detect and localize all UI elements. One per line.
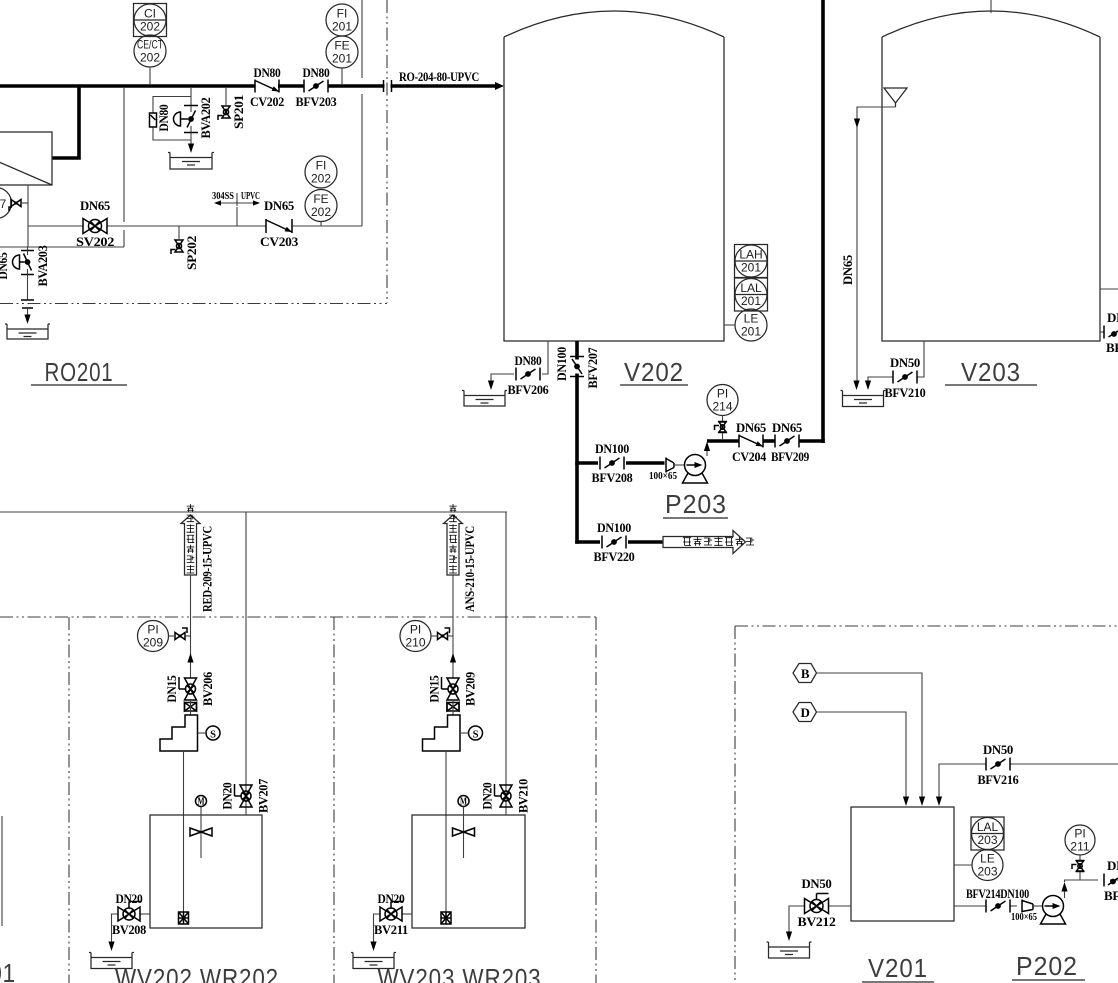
- flow indicator FI201: [326, 4, 358, 36]
- svg-text:BV209: BV209: [463, 671, 478, 706]
- dosing tank WV202 WR202: [150, 815, 262, 928]
- root valve below PI214: [722, 416, 724, 422]
- instrument tap wire FE201 to pipe: [341, 68, 343, 84]
- tank V201: [851, 807, 954, 921]
- svg-text:CV204: CV204: [732, 449, 767, 464]
- svg-text:WV203 WR203: WV203 WR203: [378, 963, 542, 983]
- svg-text:100×65: 100×65: [649, 471, 677, 482]
- svg-text:PI: PI: [410, 623, 421, 637]
- svg-text:100×65: 100×65: [1011, 912, 1037, 923]
- svg-text:BFV214DN100: BFV214DN100: [966, 886, 1029, 901]
- svg-text:CI: CI: [144, 7, 156, 21]
- svg-text:BVA202: BVA202: [198, 98, 213, 139]
- svg-text:209: 209: [143, 636, 163, 650]
- pulsation damper: [447, 703, 459, 712]
- svg-text:S: S: [473, 730, 479, 741]
- ball valve BV212: [805, 894, 829, 914]
- arrow overflow into pit: [853, 381, 859, 391]
- svg-text:FE: FE: [334, 39, 349, 53]
- thick pipe suction branch to P203: [575, 461, 598, 465]
- thick pipe discharge riser to top: [821, 0, 825, 443]
- metering pump body: [160, 715, 198, 751]
- svg-text:FI: FI: [337, 7, 348, 21]
- arrow drain into pit: [865, 381, 871, 391]
- chinese text to dosing point rotated: [449, 504, 457, 512]
- pressure instrument PI2.. at left edge: [0, 188, 12, 219]
- wire suction line into tank: [445, 751, 447, 912]
- pump P202: [1041, 896, 1066, 925]
- pressure indicator PI211: [1065, 825, 1095, 855]
- instrument root valve at RO outlet: [9, 200, 28, 212]
- check valve CV202: [255, 80, 279, 93]
- butterfly valve BFV206: [516, 368, 540, 381]
- svg-text:CE/CT: CE/CT: [137, 38, 163, 52]
- instrument tap wire FE202: [320, 222, 322, 227]
- svg-text:BFV210: BFV210: [885, 385, 926, 400]
- svg-text:201: 201: [332, 52, 352, 66]
- wire V203 overflow line DN65: [857, 107, 896, 385]
- sample valve SP201: [218, 106, 230, 120]
- flow arrow up on dosing line: [187, 653, 193, 663]
- svg-text:V203: V203: [961, 357, 1021, 387]
- drain pit below V203: [841, 391, 886, 407]
- svg-text:D: D: [800, 705, 809, 720]
- svg-text:CV203: CV203: [260, 234, 299, 249]
- svg-text:SP201: SP201: [231, 95, 246, 129]
- chinese text connect to owner main water supply equipment: [683, 538, 691, 546]
- wire dosing water header y=512: [0, 511, 507, 513]
- reducer 100x65 at P202 suction: [1022, 900, 1033, 913]
- pressure indicator PI210: [400, 621, 431, 652]
- reducer 100x65 at P203 suction: [666, 458, 674, 473]
- svg-text:BFV203: BFV203: [296, 94, 338, 109]
- wire reducer to pump P202: [1033, 905, 1043, 907]
- svg-text:LE: LE: [980, 852, 995, 866]
- wire V201 drain via BV212: [829, 905, 852, 907]
- wire damper to metering pump: [190, 700, 192, 715]
- ball valve BV208: [118, 902, 141, 922]
- wire BVA202 to drain: [190, 133, 192, 145]
- wire concentrate header y=226: [28, 225, 83, 227]
- svg-text:BFV217: BFV217: [1104, 888, 1118, 903]
- material break marker 304SS/UPVC: [236, 193, 238, 206]
- root valve below PI211: [1079, 855, 1081, 861]
- wire damper to metering pump: [452, 700, 454, 715]
- level alarm low LAL203: [971, 817, 1004, 850]
- svg-text:BV207: BV207: [256, 778, 271, 813]
- svg-text:DN80: DN80: [156, 105, 171, 132]
- butterfly valve BFV214: [986, 900, 1010, 913]
- wire V203 level instruments stub: [1100, 288, 1118, 290]
- wire dosing discharge line: [190, 575, 192, 678]
- svg-text:M: M: [198, 797, 205, 808]
- wire dilution water drop with valve: [505, 512, 507, 815]
- valve assembly BVA203 on reject header: [13, 247, 35, 275]
- butterfly valve BFV209: [775, 435, 799, 448]
- drain pit below BVA203: [5, 324, 50, 339]
- svg-text:201: 201: [0, 958, 16, 983]
- boundary dosing skids horizontal: [0, 616, 596, 618]
- tank V202 shell: [504, 37, 724, 341]
- svg-text:ANS-210-15-UPVC: ANS-210-15-UPVC: [462, 526, 477, 612]
- svg-text:WV202 WR202: WV202 WR202: [115, 963, 279, 983]
- butterfly valve BFV216: [986, 758, 1010, 771]
- svg-text:DN20: DN20: [220, 783, 235, 810]
- svg-text:FE: FE: [313, 192, 328, 206]
- ball valve BV210 vertical: [495, 784, 513, 807]
- valve at right edge of P202 discharge: [1103, 874, 1105, 887]
- svg-text:BFV211: BFV211: [1106, 340, 1118, 355]
- drain pit below BVA202: [168, 153, 214, 170]
- svg-text:DN100: DN100: [595, 441, 629, 456]
- pressure indicator PI214: [707, 385, 738, 416]
- svg-text:RED-209-15-UPVC: RED-209-15-UPVC: [200, 526, 215, 612]
- svg-text:DN20: DN20: [480, 783, 495, 810]
- svg-text:DN80: DN80: [515, 353, 542, 368]
- svg-text:DN65: DN65: [736, 420, 767, 435]
- wire P202 discharge: [1064, 885, 1066, 898]
- svg-text:BV206: BV206: [200, 671, 215, 706]
- wire reject branch x=124 from main pipe: [123, 88, 125, 222]
- svg-text:DN80: DN80: [254, 65, 281, 80]
- ball valve BV207 vertical: [235, 784, 253, 807]
- battery limit boundary RO skid: [386, 0, 388, 303]
- check valve CV203: [266, 219, 292, 233]
- svg-text:FI: FI: [316, 159, 327, 173]
- sample point SP202 tap wire: [178, 226, 180, 239]
- drain pit below V202: [462, 391, 507, 407]
- wire P203 discharge with arrow: [706, 443, 708, 456]
- svg-text:DN100: DN100: [597, 520, 631, 535]
- svg-text:V202: V202: [624, 357, 684, 387]
- svg-text:DN50: DN50: [890, 355, 920, 370]
- analyzer indicator CI202 in square: [134, 4, 167, 37]
- level alarm low LAL201: [735, 278, 768, 311]
- thick pipe V202 outlet riser: [575, 341, 579, 360]
- boundary vertical x=596: [595, 617, 597, 983]
- wire dosing discharge line: [452, 575, 454, 678]
- svg-text:RO-204-80-UPVC: RO-204-80-UPVC: [399, 69, 479, 84]
- svg-text:BV208: BV208: [112, 922, 147, 937]
- svg-text:BFV206: BFV206: [508, 382, 550, 397]
- wire LE203 to tank: [954, 864, 972, 866]
- agitator shaft and impeller: [463, 807, 465, 859]
- sample point SP201 tap wire: [225, 88, 227, 105]
- svg-text:LAL: LAL: [977, 820, 999, 834]
- svg-text:201: 201: [741, 325, 761, 339]
- svg-text:DN15: DN15: [164, 675, 179, 703]
- svg-text:DN100: DN100: [554, 347, 569, 381]
- root valve of PI209: [175, 628, 187, 640]
- svg-text:S: S: [210, 730, 216, 741]
- svg-text:DN80: DN80: [303, 65, 330, 80]
- flow arrow on overflow line: [854, 119, 860, 129]
- wire dilution water drop with valve: [245, 512, 247, 815]
- foot strainer: [441, 912, 451, 924]
- wire reducer to pump P203: [674, 464, 685, 466]
- svg-text:BV210: BV210: [516, 779, 531, 813]
- wire BVA203 drain with boundary flange pair: [27, 275, 29, 301]
- svg-text:LAH: LAH: [739, 248, 762, 262]
- svg-text:SP202: SP202: [184, 236, 199, 270]
- svg-text:LAL: LAL: [740, 281, 762, 295]
- svg-text:201: 201: [332, 20, 352, 34]
- level element LE201: [735, 309, 767, 341]
- svg-text:PI: PI: [147, 623, 158, 637]
- wire LE201 to tank: [724, 324, 735, 326]
- svg-text:PI: PI: [717, 387, 728, 401]
- svg-text:P202: P202: [1016, 951, 1078, 981]
- foot strainer: [179, 912, 189, 924]
- flow element FE201: [326, 36, 358, 68]
- wire main product pipe RO-204 y=86: [0, 84, 255, 88]
- svg-text:DN65: DN65: [264, 198, 295, 213]
- svg-text:UPVC: UPVC: [241, 191, 260, 202]
- svg-text:203: 203: [977, 865, 997, 879]
- svg-text:B: B: [801, 666, 810, 681]
- flow arrow up on dosing line: [450, 653, 456, 663]
- chinese text to dosing point rotated: [187, 504, 195, 512]
- arrow into pit of BV212: [786, 932, 792, 942]
- svg-text:DN65: DN65: [1107, 858, 1118, 873]
- wire tank drain with valve BV208: [140, 913, 150, 915]
- metering pump body: [423, 715, 461, 751]
- flush valve assembly BVA202 tap from pipe: [190, 88, 192, 105]
- svg-text:RO201: RO201: [45, 357, 114, 387]
- check valve CV204: [739, 435, 763, 448]
- svg-text:DN20: DN20: [116, 891, 143, 906]
- svg-text:BFV20: BFV20: [0, 783, 3, 817]
- svg-text:202: 202: [311, 172, 331, 186]
- wire stub on V203 dome top: [990, 0, 992, 13]
- svg-text:DN65: DN65: [0, 252, 10, 280]
- svg-text:202: 202: [140, 51, 160, 65]
- svg-text:BFV208: BFV208: [592, 470, 634, 485]
- wire concentrate riser x=362: [361, 0, 363, 78]
- butterfly valve BFV208: [600, 457, 624, 470]
- wire V203 drain branch: [917, 341, 924, 377]
- tank V203 shell: [882, 37, 1100, 341]
- wire dilution water inlet via BFV216: [1010, 763, 1118, 765]
- svg-text:CV202: CV202: [250, 94, 284, 109]
- solenoid S circle: [469, 726, 483, 740]
- svg-text:DN50: DN50: [983, 742, 1013, 757]
- pulsation damper: [185, 703, 197, 712]
- agitator motor M: [458, 796, 469, 807]
- arrow into drain pit of BFV206: [488, 381, 494, 391]
- butterfly valve BFV207 vertical: [570, 357, 584, 377]
- thick feed branch to RO201: [52, 85, 79, 158]
- thick pipe branch to owner supply: [575, 540, 600, 544]
- RO membrane unit RO201 body: [0, 132, 52, 185]
- drain pit of BV211: [351, 953, 396, 969]
- svg-text:7: 7: [0, 197, 7, 211]
- agitator motor M: [196, 796, 207, 807]
- arrow into tank V202: [495, 82, 504, 90]
- level element LE203: [972, 850, 1003, 881]
- svg-text:BVA203: BVA203: [35, 245, 50, 287]
- svg-text:202: 202: [311, 205, 331, 219]
- analyzer element CE/CT202: [134, 35, 166, 67]
- wire partial dosing unit at left edge: [1, 816, 3, 926]
- wire V201 outlet via BFV214: [954, 905, 986, 907]
- dosing tank WV203 WR203: [412, 815, 525, 928]
- globe valve SV202: [83, 219, 107, 234]
- svg-text:BV211: BV211: [374, 922, 408, 937]
- arrow into drain pit of BVA203: [24, 315, 30, 325]
- wire suction line into tank: [183, 751, 185, 912]
- svg-text:BFV207: BFV207: [585, 347, 600, 389]
- svg-text:M: M: [460, 797, 467, 808]
- svg-text:DN15: DN15: [427, 675, 442, 703]
- svg-text:DN65: DN65: [772, 420, 803, 435]
- svg-text:P203: P203: [665, 489, 727, 519]
- instrument tap wire CE/CT202 to pipe: [149, 67, 151, 84]
- wire V203 outlet with valve at right edge: [1100, 331, 1104, 333]
- svg-text:210: 210: [405, 636, 425, 650]
- svg-text:V201: V201: [868, 953, 928, 983]
- svg-text:PI: PI: [1074, 827, 1085, 841]
- butterfly valve BFV220: [602, 536, 626, 549]
- pipe break marks at battery limit: [385, 82, 391, 90]
- off-page connector arrow dosing point (ANS-210-15-UPVC): [444, 515, 463, 575]
- drain pit below BV212: [767, 942, 812, 958]
- flow indicator FI202: [305, 156, 337, 188]
- svg-text:BFV220: BFV220: [594, 549, 635, 564]
- boundary V201 skid: [735, 625, 1118, 627]
- svg-text:201: 201: [741, 261, 761, 275]
- svg-text:DN65: DN65: [840, 254, 855, 285]
- wire tank drain with valve BV211: [402, 913, 412, 915]
- arrow into drain pit of BVA202: [188, 144, 194, 154]
- off-page connector hexagon B: [793, 664, 817, 683]
- wire from D to tank V201: [817, 712, 907, 798]
- svg-text:DN50: DN50: [802, 876, 832, 891]
- wire V202 drain branch: [542, 341, 548, 374]
- drain pit of BV208: [89, 953, 134, 969]
- svg-text:203: 203: [977, 833, 997, 847]
- butterfly valve BFV210: [893, 371, 917, 384]
- svg-text:DN20: DN20: [378, 891, 405, 906]
- svg-text:BFV216: BFV216: [978, 772, 1020, 787]
- root valve of PI210: [438, 628, 450, 640]
- thick pipe P203 discharge: [707, 439, 739, 443]
- boundary vertical x=69: [68, 617, 70, 983]
- arrow into pit of BV211: [370, 942, 376, 952]
- svg-text:214: 214: [712, 400, 732, 414]
- svg-text:211: 211: [1070, 840, 1089, 854]
- svg-text:LE: LE: [744, 312, 759, 326]
- agitator shaft and impeller: [200, 807, 202, 859]
- off-page connector hexagon D: [793, 703, 817, 722]
- pump P203: [683, 455, 708, 484]
- butterfly valve BFV203: [304, 80, 328, 93]
- pressure indicator PI209: [138, 621, 169, 652]
- off-page connector arrow to owner water supply equipment: [663, 531, 746, 554]
- bypass rotameter loop DN80: [153, 97, 191, 141]
- svg-text:BFV209: BFV209: [771, 449, 810, 464]
- svg-text:BV212: BV212: [798, 914, 836, 929]
- overflow funnel inside V203: [884, 88, 907, 103]
- svg-text:DN65: DN65: [1107, 310, 1118, 325]
- svg-text:304SS: 304SS: [212, 191, 234, 202]
- off-page connector arrow dosing point (RED-209-15-UPVC): [181, 515, 200, 575]
- ball valve BV211: [380, 902, 403, 922]
- svg-text:DN65: DN65: [80, 198, 111, 213]
- boundary vertical x=334: [333, 617, 335, 983]
- sample valve SP202: [171, 240, 183, 254]
- ball valve BV206 vertical: [179, 677, 197, 700]
- arrow into pit of BV208: [108, 942, 114, 952]
- level alarm high LAH201: [735, 245, 768, 278]
- svg-text:201: 201: [741, 294, 761, 308]
- solenoid S circle: [206, 726, 220, 740]
- diaphragm valve BVA202: [174, 106, 199, 133]
- flow element FE202: [305, 190, 337, 222]
- svg-text:202: 202: [140, 20, 160, 34]
- ball valve BV209 vertical: [442, 677, 460, 700]
- wire from B to tank V201: [817, 673, 923, 798]
- wire RO concentrate drop x=28: [27, 185, 29, 247]
- wire reject header y=247 to left edge: [0, 246, 124, 248]
